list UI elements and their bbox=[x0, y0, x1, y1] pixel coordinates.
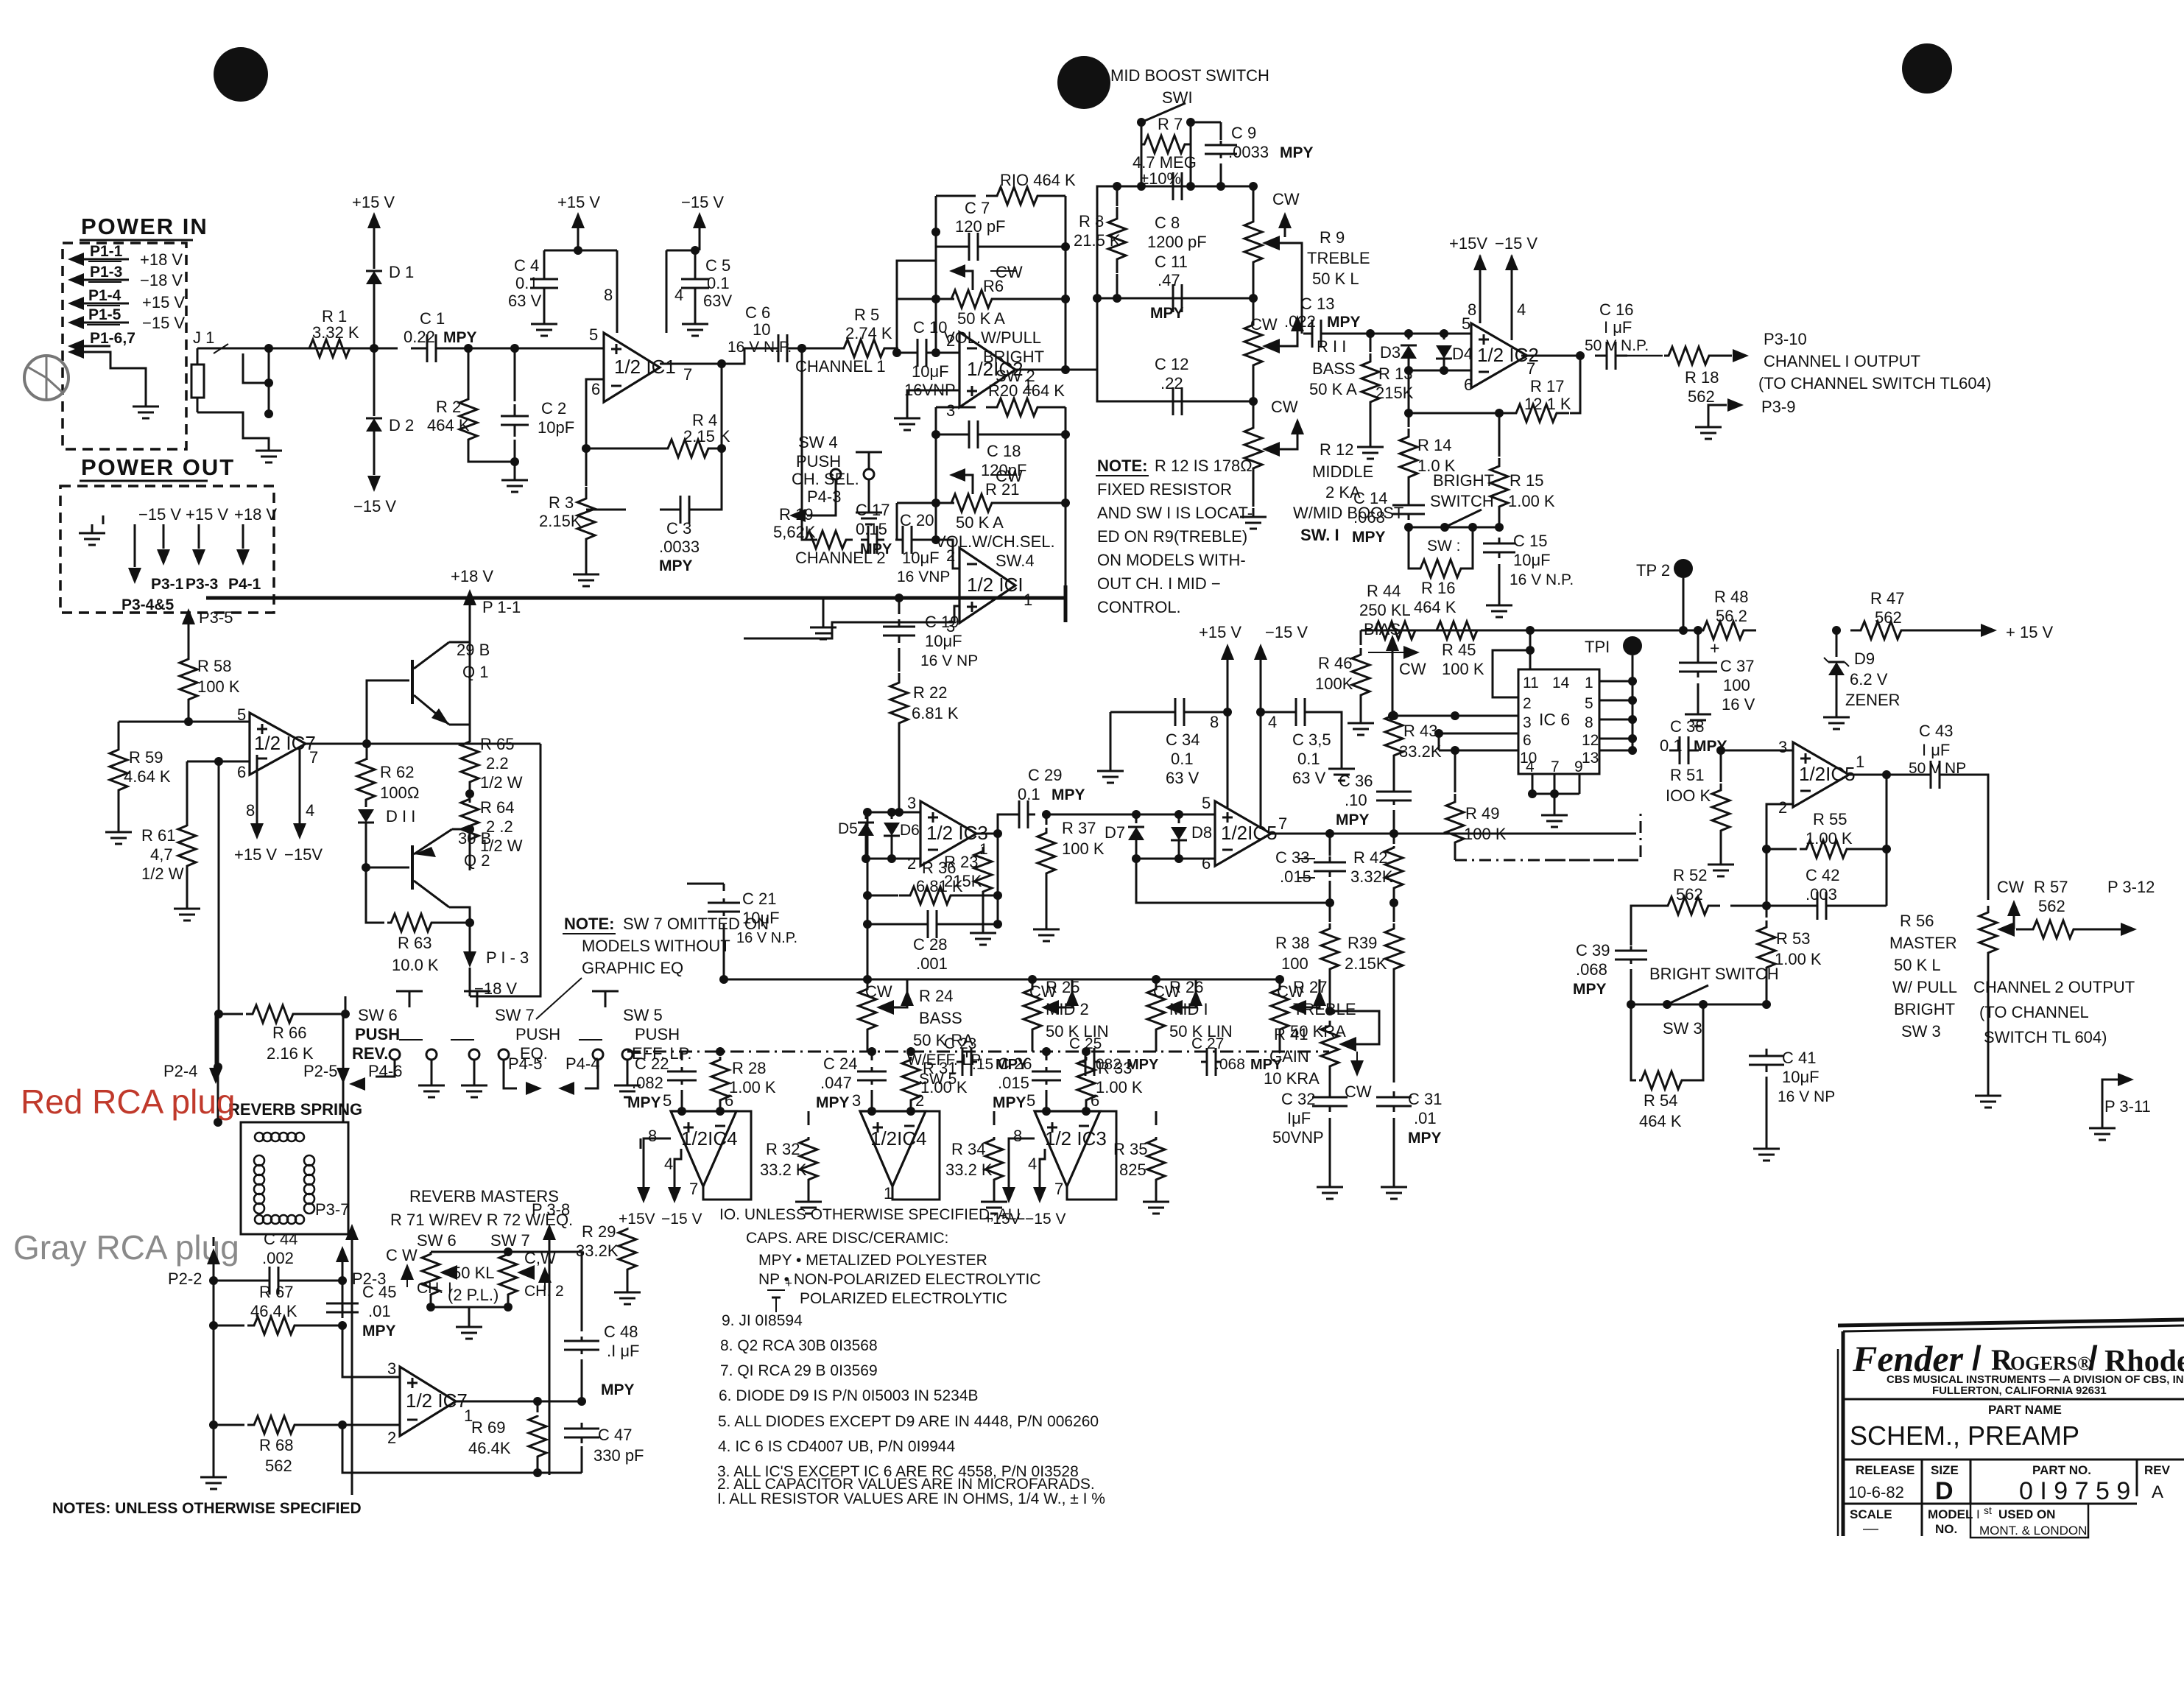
svg-text:33.2 K: 33.2 K bbox=[760, 1161, 807, 1179]
ground bbox=[627, 1284, 629, 1292]
capacitor C27 bbox=[1201, 1061, 1207, 1063]
resistor R2 bbox=[468, 348, 470, 387]
svg-text:50 KL: 50 KL bbox=[452, 1264, 495, 1282]
svg-text:−15 V: −15 V bbox=[1265, 623, 1308, 641]
capacitor C11 bbox=[1155, 297, 1173, 300]
svg-text:C 14: C 14 bbox=[1353, 489, 1387, 507]
resistor R18 bbox=[1664, 347, 1716, 365]
wire pin4 IC3b bbox=[1040, 1149, 1045, 1178]
svg-text:464 K: 464 K bbox=[427, 416, 470, 434]
svg-text:R 62: R 62 bbox=[380, 763, 414, 781]
svg-text:MPY: MPY bbox=[816, 1094, 850, 1111]
junction bbox=[1042, 810, 1051, 819]
junction bbox=[931, 430, 940, 439]
power arrow -15V bbox=[373, 432, 376, 475]
svg-text:29 B: 29 B bbox=[457, 641, 490, 659]
resistor R22 bbox=[898, 648, 901, 672]
svg-text:MPY: MPY bbox=[1327, 314, 1361, 331]
op-amp IC3a bbox=[920, 801, 976, 866]
switch SW7 bbox=[476, 991, 479, 1007]
IC6 right pin stubs bbox=[1599, 680, 1632, 683]
svg-text:MPY: MPY bbox=[1336, 811, 1370, 828]
junction bbox=[931, 348, 940, 357]
svg-text:+18 V: +18 V bbox=[451, 567, 493, 585]
feedback rail bbox=[997, 834, 999, 924]
svg-text:C 8: C 8 bbox=[1155, 214, 1180, 232]
arrow P3-3 bbox=[198, 524, 200, 549]
svg-text:1: 1 bbox=[884, 1184, 892, 1203]
svg-text:MONT. & LONDON: MONT. & LONDON bbox=[1979, 1524, 2087, 1538]
wire bbox=[897, 348, 907, 353]
svg-text:1.00 K: 1.00 K bbox=[1775, 950, 1822, 968]
svg-text:R 57: R 57 bbox=[2034, 878, 2068, 896]
svg-text:C 2: C 2 bbox=[541, 399, 566, 418]
svg-text:4.64 K: 4.64 K bbox=[124, 767, 171, 786]
svg-text:.0033: .0033 bbox=[659, 538, 700, 556]
svg-text:+15 V: +15 V bbox=[186, 505, 228, 524]
resistor R45 bbox=[1427, 622, 1489, 639]
svg-text:R 63: R 63 bbox=[398, 934, 431, 952]
svg-text:C 28: C 28 bbox=[913, 935, 947, 954]
junction bbox=[1366, 329, 1375, 338]
svg-text:R 33: R 33 bbox=[1098, 1059, 1132, 1077]
op-amp IC7a bbox=[250, 713, 306, 775]
wire output IC7a bbox=[306, 743, 367, 745]
svg-text:Q 2: Q 2 bbox=[464, 851, 490, 870]
svg-text:C 21: C 21 bbox=[742, 890, 776, 908]
resistor R58 bbox=[180, 659, 197, 701]
wire output IC7b bbox=[456, 1401, 538, 1403]
resistor R32 bbox=[808, 1111, 810, 1125]
svg-text:R 12 IS 178Ω: R 12 IS 178Ω bbox=[1155, 457, 1253, 475]
capacitor C47 bbox=[538, 1401, 582, 1403]
junction bbox=[465, 789, 474, 798]
svg-text:1/2IC5: 1/2IC5 bbox=[1221, 822, 1278, 844]
svg-text:MPY: MPY bbox=[443, 329, 477, 346]
svg-text:10.0 K: 10.0 K bbox=[392, 956, 439, 974]
svg-text:2.15K: 2.15K bbox=[1345, 954, 1387, 973]
svg-text:C 10: C 10 bbox=[913, 318, 947, 337]
wire P1-6,7 to ground bbox=[82, 352, 146, 398]
svg-text:1/2IC4: 1/2IC4 bbox=[870, 1127, 927, 1149]
wire Q1 collector to +18V bbox=[449, 611, 470, 642]
svg-text:C 38: C 38 bbox=[1670, 717, 1704, 736]
ground bbox=[1554, 806, 1556, 815]
svg-text:63V: 63V bbox=[703, 292, 732, 310]
svg-text:11: 11 bbox=[1523, 675, 1539, 691]
arrow P3-4,5 bbox=[134, 538, 136, 567]
svg-text:R 47: R 47 bbox=[1870, 589, 1904, 608]
svg-text:C 39: C 39 bbox=[1576, 941, 1610, 960]
svg-text:.01: .01 bbox=[1414, 1109, 1437, 1127]
svg-text:C 48: C 48 bbox=[604, 1323, 638, 1341]
svg-text:2: 2 bbox=[946, 546, 955, 565]
IC6 left pin stubs bbox=[1392, 715, 1518, 717]
svg-text:.15: .15 bbox=[972, 1056, 993, 1073]
svg-text:1/2 W: 1/2 W bbox=[141, 865, 184, 883]
svg-text:−18 V: −18 V bbox=[140, 271, 183, 289]
svg-text:R 24: R 24 bbox=[919, 987, 953, 1005]
svg-text:2: 2 bbox=[907, 854, 916, 873]
capacitor C32 bbox=[1329, 1091, 1331, 1097]
wire bbox=[1627, 355, 1663, 357]
potentiometer R9 treble bbox=[1253, 186, 1255, 219]
svg-text:3: 3 bbox=[852, 1091, 861, 1110]
svg-text:2.2: 2.2 bbox=[486, 754, 509, 772]
svg-text:C 6: C 6 bbox=[745, 303, 770, 322]
svg-text:30 B: 30 B bbox=[458, 829, 491, 848]
svg-text:+15 V: +15 V bbox=[1199, 623, 1241, 641]
svg-text:D 1: D 1 bbox=[389, 263, 414, 281]
svg-text:8: 8 bbox=[1013, 1127, 1022, 1145]
dash-dot bus row bbox=[627, 1051, 1329, 1053]
svg-text:50 K L: 50 K L bbox=[1312, 270, 1359, 288]
ground bbox=[268, 442, 270, 451]
svg-text:−15V: −15V bbox=[284, 845, 323, 864]
svg-text:10μF: 10μF bbox=[1782, 1068, 1820, 1086]
svg-text:R 45: R 45 bbox=[1442, 641, 1476, 659]
R41 CW arrow bbox=[1356, 1052, 1358, 1062]
svg-text:7: 7 bbox=[689, 1180, 698, 1198]
feedback bottom wire bbox=[342, 1425, 582, 1473]
svg-text:3: 3 bbox=[387, 1359, 396, 1378]
title block line bbox=[1843, 1503, 2137, 1505]
svg-text:MPY: MPY bbox=[1052, 786, 1085, 803]
junction bbox=[1325, 829, 1334, 838]
svg-text:SW. I: SW. I bbox=[1300, 526, 1339, 544]
svg-text:SW 5: SW 5 bbox=[623, 1006, 663, 1024]
resistor R13 bbox=[1370, 334, 1372, 352]
wire feedback to output bbox=[721, 364, 723, 448]
title block line bbox=[1843, 1398, 2184, 1401]
resistor R46 bbox=[1360, 630, 1362, 645]
svg-text:100 K: 100 K bbox=[1062, 839, 1105, 858]
svg-text:C 11: C 11 bbox=[1155, 253, 1188, 271]
svg-text:R 51: R 51 bbox=[1670, 766, 1704, 784]
svg-text:AND SW I IS LOCAT-: AND SW I IS LOCAT- bbox=[1097, 504, 1253, 522]
resistor R48 bbox=[1693, 622, 1756, 639]
svg-text:0.15: 0.15 bbox=[856, 520, 887, 538]
capacitor C12 bbox=[1155, 401, 1173, 403]
capacitor C31 bbox=[1393, 1091, 1395, 1097]
wire row C12 bbox=[1097, 298, 1253, 401]
svg-text:Gray RCA plug: Gray RCA plug bbox=[13, 1228, 239, 1267]
resistor R38 bbox=[1329, 903, 1331, 922]
capacitor C28 bbox=[867, 923, 920, 926]
svg-text:MID BOOST SWITCH: MID BOOST SWITCH bbox=[1110, 66, 1269, 85]
resistor R29 bbox=[640, 1138, 642, 1149]
svg-text:PUSH: PUSH bbox=[355, 1025, 400, 1043]
registration mark 2 bbox=[1057, 56, 1110, 109]
svg-text:0.1: 0.1 bbox=[707, 274, 730, 292]
resistor R53 bbox=[1766, 906, 1768, 918]
svg-text:100Ω: 100Ω bbox=[380, 784, 420, 802]
ground bbox=[1253, 508, 1255, 517]
svg-text:C 5: C 5 bbox=[705, 256, 730, 275]
svg-text:SW 6: SW 6 bbox=[417, 1231, 457, 1250]
svg-text:12: 12 bbox=[1582, 732, 1599, 749]
left bus down bbox=[867, 812, 869, 979]
arrow +15V out bbox=[1914, 630, 1981, 632]
wire output IC2b bbox=[1521, 355, 1580, 357]
junction bbox=[931, 535, 940, 544]
svg-text:5. ALL DIODES EXCEPT D9 A: 5. ALL DIODES EXCEPT D9 ARE IN 4448, P/N… bbox=[718, 1413, 1099, 1430]
svg-text:BASS: BASS bbox=[1312, 359, 1356, 378]
capacitor C34 bbox=[1110, 711, 1168, 714]
svg-text:10: 10 bbox=[753, 320, 770, 339]
junction bbox=[464, 344, 473, 353]
CW arrow R11 bbox=[1291, 315, 1304, 331]
svg-text:1/2IC2: 1/2IC2 bbox=[967, 358, 1024, 380]
svg-text:+15 V: +15 V bbox=[352, 193, 395, 211]
ground bbox=[1987, 1087, 1990, 1096]
svg-text:9. JI 0I8594: 9. JI 0I8594 bbox=[722, 1312, 803, 1329]
switch SW2 bright bbox=[1409, 527, 1499, 529]
svg-text:st: st bbox=[1984, 1504, 1992, 1516]
svg-text:3: 3 bbox=[1523, 714, 1532, 731]
wire row treble bbox=[1097, 297, 1253, 300]
svg-text:I μF: I μF bbox=[1922, 741, 1950, 759]
wire pot top row bbox=[431, 1251, 508, 1253]
wire pin3 ch2 bbox=[744, 606, 959, 638]
svg-text:R 52: R 52 bbox=[1673, 866, 1707, 884]
wire R66 to output rail bbox=[345, 996, 347, 1014]
wire output bbox=[660, 348, 769, 364]
diode D11 bbox=[358, 809, 374, 823]
svg-text:J 1: J 1 bbox=[193, 328, 214, 347]
svg-text:2: 2 bbox=[946, 331, 955, 350]
wire reverb return bbox=[342, 1014, 345, 1122]
R44 CW arrow bbox=[1368, 652, 1403, 653]
wire feedback left rail bbox=[935, 196, 937, 353]
resistor R54 loop bbox=[1631, 1004, 1636, 1080]
svg-text:FULLERTON, CALIFORNIA 92631: FULLERTON, CALIFORNIA 92631 bbox=[1932, 1384, 2107, 1397]
op-amp IC5a bbox=[1793, 742, 1849, 807]
resistor R31 bbox=[910, 1052, 912, 1053]
op-amp IC2b bbox=[1471, 323, 1527, 388]
arrow P3-11 bbox=[2102, 1080, 2118, 1119]
svg-text:4. IC 6 IS CD4007 UB, P/N: 4. IC 6 IS CD4007 UB, P/N 0I9944 bbox=[718, 1438, 955, 1455]
svg-text:C 18: C 18 bbox=[987, 442, 1021, 460]
svg-text:MIDDLE: MIDDLE bbox=[1312, 462, 1373, 481]
R56 CW arrow bbox=[2007, 900, 2021, 916]
capacitor C21 bbox=[687, 883, 724, 885]
svg-text:TPI: TPI bbox=[1585, 638, 1610, 656]
svg-text:R 8: R 8 bbox=[1079, 212, 1104, 230]
potentiometer R21 bbox=[897, 502, 954, 504]
svg-text:R 68: R 68 bbox=[259, 1436, 293, 1454]
svg-text:10-6-82: 10-6-82 bbox=[1848, 1483, 1904, 1501]
svg-text:D7: D7 bbox=[1105, 823, 1125, 842]
svg-text:R 17: R 17 bbox=[1530, 377, 1564, 395]
resistor R51 bbox=[1720, 750, 1722, 782]
potentiometer R71 bbox=[422, 1254, 440, 1296]
capacitor C33 bbox=[1329, 834, 1331, 856]
capacitor C14 bbox=[1408, 499, 1410, 505]
svg-text:100K: 100K bbox=[1315, 675, 1353, 693]
ground bbox=[145, 398, 147, 406]
capacitor C3 bbox=[586, 509, 626, 511]
svg-text:+15 V: +15 V bbox=[142, 293, 185, 311]
capacitor C42 bbox=[1766, 849, 1768, 906]
svg-text:P1-5: P1-5 bbox=[88, 306, 121, 323]
svg-text:50 KRA: 50 KRA bbox=[1290, 1022, 1346, 1041]
ground bbox=[514, 471, 516, 480]
zener diode D9 bbox=[1836, 630, 1838, 657]
wire pin5 row bbox=[119, 721, 250, 723]
ground bbox=[1498, 596, 1501, 605]
svg-text:SWI: SWI bbox=[1162, 88, 1193, 107]
junction bbox=[510, 457, 519, 466]
svg-text:P 3-11: P 3-11 bbox=[2104, 1097, 2151, 1116]
wire pin3 row IC3a bbox=[899, 811, 920, 814]
svg-text:63 V: 63 V bbox=[1166, 769, 1200, 787]
svg-text:+18 V: +18 V bbox=[234, 505, 277, 524]
resistor R15 bbox=[1498, 413, 1501, 457]
svg-text:PUSH: PUSH bbox=[515, 1025, 560, 1043]
junction bbox=[370, 344, 378, 353]
svg-text:C 32: C 32 bbox=[1281, 1090, 1315, 1108]
svg-text:1: 1 bbox=[1856, 753, 1864, 771]
svg-text:MPY: MPY bbox=[362, 1323, 396, 1339]
resistor R16 loop bbox=[1409, 527, 1414, 568]
wire pin8 +15V rail bbox=[616, 250, 619, 333]
svg-text:—: — bbox=[1863, 1520, 1878, 1537]
svg-text:BRIGHT: BRIGHT bbox=[1433, 471, 1494, 490]
junction bbox=[1093, 294, 1102, 303]
wire to pin2 IC1b bbox=[919, 540, 959, 568]
svg-text:MODEL: MODEL bbox=[1928, 1507, 1973, 1521]
svg-text:1/2 W: 1/2 W bbox=[480, 773, 523, 792]
svg-text:IO. UNLESS OTHERWISE SPECIFI: IO. UNLESS OTHERWISE SPECIFIED, ALL bbox=[719, 1206, 1025, 1223]
CW arrow R9 bbox=[1278, 212, 1292, 228]
resistor R62 bbox=[366, 744, 368, 760]
svg-text:IC 6: IC 6 bbox=[1539, 710, 1570, 729]
junction bbox=[892, 348, 901, 357]
chassis ground circle bbox=[24, 356, 68, 400]
svg-text:CW: CW bbox=[865, 982, 892, 1001]
svg-text:+18 V: +18 V bbox=[140, 250, 183, 269]
svg-text:5: 5 bbox=[1585, 695, 1593, 712]
wire P4-5 bbox=[504, 1060, 517, 1088]
test point TP1 bbox=[1623, 636, 1642, 655]
wire pin4 -15V rail bbox=[666, 250, 668, 317]
connector pin P1-5 bbox=[68, 316, 84, 329]
svg-text:NOTE:: NOTE: bbox=[564, 915, 614, 933]
svg-text:16 V: 16 V bbox=[1722, 695, 1755, 714]
svg-text:EFF. LP.: EFF. LP. bbox=[632, 1044, 692, 1063]
ground left of C19 bbox=[822, 598, 825, 619]
svg-text:3.32 K: 3.32 K bbox=[312, 323, 359, 342]
svg-text:P I - 3: P I - 3 bbox=[486, 948, 529, 967]
svg-text:CW: CW bbox=[1272, 190, 1300, 208]
svg-text:IOO K: IOO K bbox=[1666, 786, 1711, 805]
svg-text:Red RCA plug: Red RCA plug bbox=[21, 1082, 236, 1121]
svg-text:P2-5: P2-5 bbox=[303, 1062, 337, 1080]
title block line bbox=[1843, 1459, 2184, 1461]
svg-text:8. Q2 RCA 30B 0I3568: 8. Q2 RCA 30B 0I3568 bbox=[720, 1337, 878, 1354]
capacitor C35 bbox=[1261, 711, 1289, 714]
svg-text:BRIGHT SWITCH: BRIGHT SWITCH bbox=[1649, 965, 1779, 983]
arrow P3-12 bbox=[2077, 929, 2121, 931]
op-amp IC5b bbox=[1215, 801, 1271, 866]
svg-text:C 27: C 27 bbox=[1191, 1035, 1224, 1052]
ground bbox=[1836, 708, 1838, 717]
svg-text:MPY: MPY bbox=[1280, 144, 1314, 161]
svg-text:3: 3 bbox=[946, 401, 955, 420]
wire pin6 row IC5b bbox=[1136, 858, 1215, 860]
svg-text:C 47: C 47 bbox=[598, 1426, 632, 1444]
svg-text:C 16: C 16 bbox=[1599, 300, 1633, 319]
svg-text:33.2 K: 33.2 K bbox=[945, 1161, 993, 1179]
svg-text:POWER IN: POWER IN bbox=[81, 214, 208, 239]
svg-text:CH. I: CH. I bbox=[417, 1280, 452, 1297]
svg-text:C 37: C 37 bbox=[1720, 657, 1754, 675]
junction bbox=[1832, 626, 1841, 635]
svg-text:CHANNEL I OUTPUT: CHANNEL I OUTPUT bbox=[1764, 352, 1920, 370]
svg-text:.01: .01 bbox=[368, 1302, 391, 1320]
svg-text:5: 5 bbox=[663, 1091, 672, 1110]
svg-text:3.32K: 3.32K bbox=[1350, 867, 1393, 886]
svg-text:C 20: C 20 bbox=[900, 511, 934, 529]
resistor R64 bbox=[469, 794, 471, 800]
svg-text:SW 7: SW 7 bbox=[495, 1006, 535, 1024]
svg-text:7: 7 bbox=[309, 748, 318, 767]
wire pin4 rail bbox=[299, 750, 301, 823]
ground bbox=[993, 1193, 996, 1202]
resistor R49 bbox=[1454, 750, 1456, 792]
svg-text:P1-3: P1-3 bbox=[90, 264, 122, 281]
svg-text:4: 4 bbox=[1517, 300, 1526, 319]
svg-text:C 3: C 3 bbox=[666, 519, 691, 538]
wire bbox=[666, 250, 700, 252]
svg-text:C 19: C 19 bbox=[925, 613, 959, 631]
wire feedback right rail bbox=[1065, 196, 1067, 370]
ground bbox=[473, 1060, 476, 1077]
svg-text:SW :: SW : bbox=[1427, 538, 1461, 554]
registration mark 3 bbox=[1902, 43, 1952, 94]
svg-text:R 58: R 58 bbox=[197, 657, 231, 675]
svg-text:D 2: D 2 bbox=[389, 416, 414, 434]
svg-text:−15 V: −15 V bbox=[138, 505, 181, 524]
wire Q2 emitter to R64 bbox=[452, 828, 470, 831]
svg-text:P 3-12: P 3-12 bbox=[2107, 878, 2155, 896]
svg-text:8: 8 bbox=[648, 1127, 657, 1145]
svg-text:16 V N.P.: 16 V N.P. bbox=[1510, 571, 1574, 588]
wire pin11 bracket bbox=[1493, 650, 1530, 697]
svg-text:825: 825 bbox=[1119, 1161, 1146, 1179]
svg-text:+15 V: +15 V bbox=[234, 845, 277, 864]
junction bbox=[931, 228, 940, 236]
wire output bbox=[1015, 369, 1097, 371]
svg-text:D5: D5 bbox=[838, 820, 858, 837]
junction bbox=[1325, 1007, 1334, 1015]
svg-text:5: 5 bbox=[1202, 794, 1211, 812]
connector pin P1-3 bbox=[68, 273, 84, 286]
svg-text:POLARIZED ELECTROLYTIC: POLARIZED ELECTROLYTIC bbox=[800, 1290, 1007, 1307]
svg-text:R 14: R 14 bbox=[1417, 436, 1451, 454]
svg-text:R 64: R 64 bbox=[480, 798, 514, 817]
wire feedback right rail ch2 bbox=[1065, 407, 1067, 585]
svg-text:CHANNEL 2 OUTPUT: CHANNEL 2 OUTPUT bbox=[1973, 978, 2135, 996]
svg-text:5: 5 bbox=[1026, 1091, 1035, 1110]
svg-text:P1-1: P1-1 bbox=[90, 243, 123, 260]
svg-text:1/2IC4: 1/2IC4 bbox=[681, 1127, 738, 1149]
svg-text:R 46: R 46 bbox=[1318, 654, 1352, 672]
ground bbox=[1110, 712, 1112, 762]
svg-text:MPY • METALIZED POLYESTER: MPY • METALIZED POLYESTER bbox=[758, 1252, 987, 1269]
svg-text:RELEASE: RELEASE bbox=[1856, 1463, 1914, 1477]
